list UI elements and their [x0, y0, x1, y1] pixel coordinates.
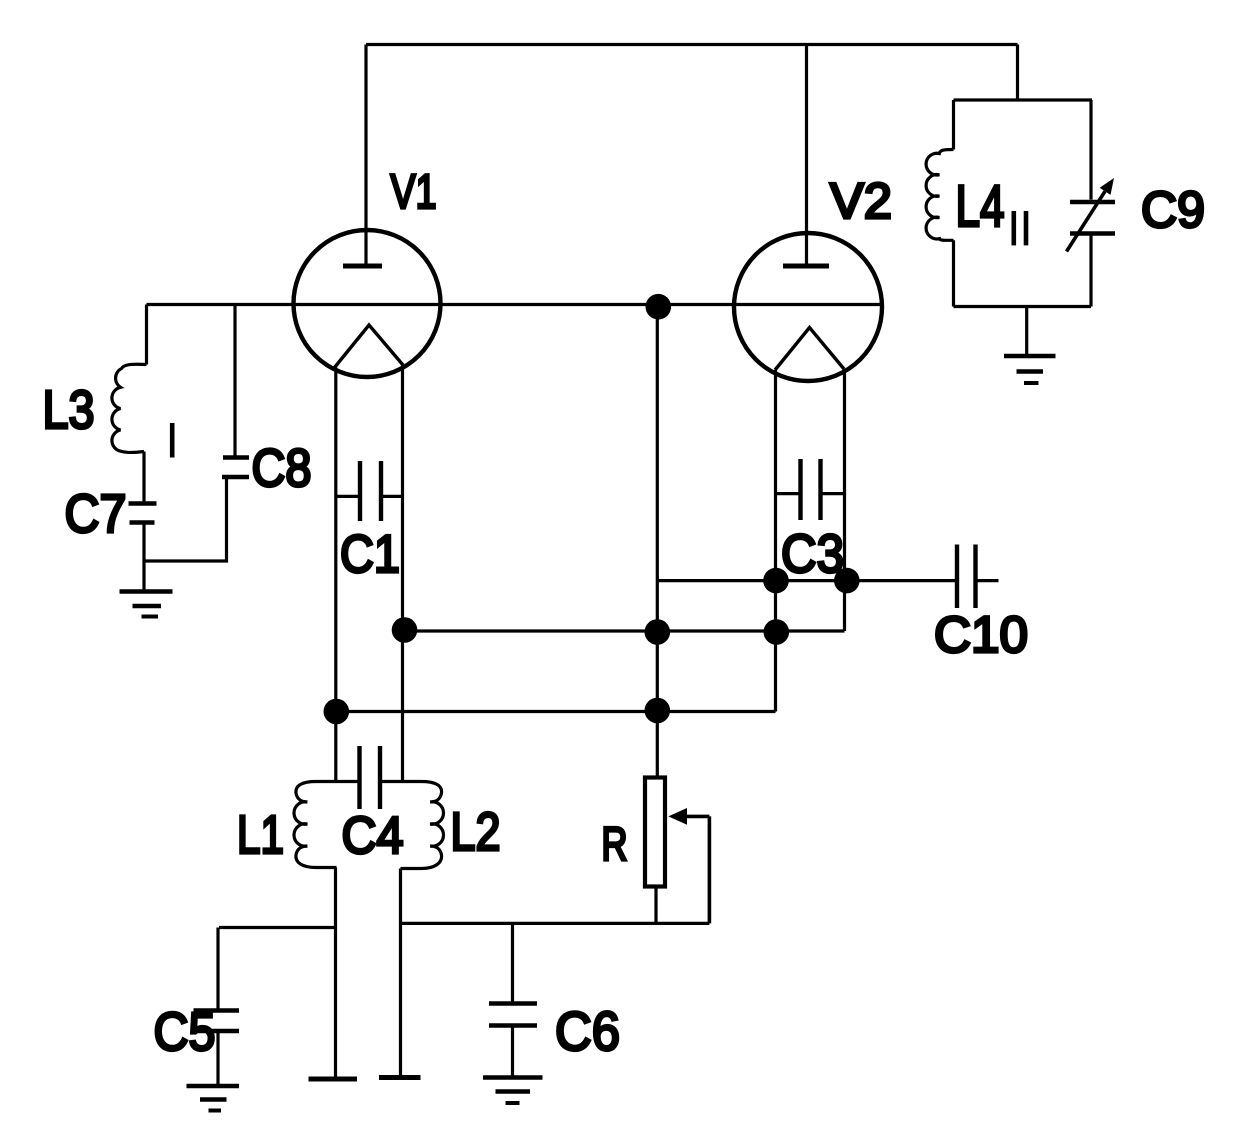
- junction: V1 right cathode leg / row2 bus: [392, 617, 418, 643]
- terminal bar under L2: [379, 1075, 421, 1080]
- wire: V1 left cathode leg: [334, 368, 337, 782]
- wire: top supply rail: [366, 43, 1018, 46]
- wire: C6 bottom lead: [511, 1026, 514, 1078]
- svg-text:C7: C7: [65, 484, 127, 544]
- ground below L4/C9 tank: [1004, 356, 1056, 383]
- wire: V2 plate lead: [805, 45, 808, 267]
- capacitor C8: [222, 458, 249, 478]
- ground below C7: [120, 592, 173, 617]
- wire: R bottom lead: [654, 887, 657, 925]
- wire: L3 to C7: [142, 452, 145, 504]
- L4/C9 tank box: top edge: [954, 98, 1093, 101]
- wire: C5 bottom lead: [216, 1031, 219, 1085]
- capacitor C3: [776, 459, 845, 520]
- winding mark II (secondary): [1014, 211, 1026, 245]
- wire: tank box to ground: [1025, 307, 1028, 355]
- svg-text:C4: C4: [342, 807, 404, 865]
- capacitor C6: [489, 1004, 537, 1026]
- wire: bottom bus right of L2: [401, 922, 710, 925]
- svg-text:C6: C6: [555, 1000, 620, 1062]
- svg-text:L4: L4: [956, 174, 1005, 239]
- junction: center column / row3 bus: [645, 698, 671, 724]
- tank box: left edge lower: [952, 240, 955, 306]
- wire: C7/C8 bottom link: [144, 477, 227, 561]
- capacitor C4: [360, 746, 381, 809]
- wire: grid rail from L3 across V1 to V2: [147, 303, 883, 306]
- tank box: left edge upper: [952, 100, 955, 150]
- capacitor C5: [194, 1011, 240, 1032]
- inductor L1 (left winding with C4, top lead): [294, 782, 359, 868]
- wire: V2 right cathode leg: [843, 369, 846, 631]
- inductor L4: [926, 150, 953, 241]
- winding mark I (primary): [170, 423, 175, 458]
- resistor R (potentiometer): [645, 778, 665, 887]
- wire: bottom bus left (C5 branch): [219, 926, 336, 929]
- wire: V1 plate lead: [364, 45, 367, 267]
- svg-text:L2: L2: [451, 802, 501, 862]
- svg-text:C8: C8: [252, 439, 312, 498]
- wire: row3 bus: [336, 710, 776, 713]
- tube V2: [734, 233, 882, 381]
- ground below C6: [483, 1078, 543, 1104]
- junction: V2 left cathode leg / C10 bus: [763, 568, 789, 594]
- capacitor C10: [957, 545, 999, 609]
- wire: V2 left cathode leg: [774, 370, 777, 712]
- junction: center column / row2 bus: [645, 619, 671, 645]
- svg-text:V1: V1: [391, 166, 437, 219]
- tank box: right edge lower: [1089, 234, 1092, 307]
- svg-text:V2: V2: [830, 173, 892, 229]
- tank box: bottom edge: [954, 305, 1092, 308]
- junction: grid rail / center column: [646, 294, 672, 320]
- wire: C6 top lead: [511, 923, 514, 1003]
- wire: C8 top lead: [233, 305, 236, 457]
- tube V1: [294, 230, 441, 377]
- junction: V2 left cathode leg / row2 bus: [764, 619, 790, 645]
- wire: row2 bus: [404, 629, 845, 632]
- variable capacitor C9: [1067, 178, 1116, 252]
- wire: drop from grid rail to L3: [145, 305, 148, 365]
- svg-text:C1: C1: [340, 525, 400, 584]
- svg-text:R: R: [602, 817, 628, 870]
- wire: C7 bottom to ground: [142, 523, 145, 591]
- svg-text:C10: C10: [934, 606, 1028, 663]
- svg-text:C5: C5: [154, 1002, 216, 1062]
- wire: L4 tank feed: [1016, 45, 1019, 101]
- wire: C5 top lead: [216, 928, 219, 1011]
- capacitor C1: [336, 461, 403, 521]
- terminal bar under L1: [309, 1077, 358, 1082]
- junction: V1 left cathode leg / row3 bus: [324, 699, 350, 725]
- svg-text:C3: C3: [781, 524, 844, 584]
- svg-text:C9: C9: [1141, 181, 1205, 238]
- wire: L1 lower lead: [334, 868, 337, 1079]
- wire: L2 lower lead: [399, 869, 402, 1077]
- capacitor C7: [129, 504, 157, 523]
- inductor L3: [112, 364, 147, 452]
- wire: center column from grid junction to R: [656, 307, 659, 777]
- wire: row1 bus to C10: [657, 579, 957, 582]
- junction: V2 right cathode leg / C10 bus: [834, 568, 860, 594]
- wire: V1 right cathode leg: [401, 365, 404, 782]
- tank box: right edge upper: [1089, 100, 1092, 200]
- svg-text:L3: L3: [43, 380, 95, 440]
- inductor L2 (right winding, top lead): [381, 782, 444, 869]
- ground below C5: [187, 1086, 240, 1111]
- svg-text:L1: L1: [237, 805, 284, 865]
- potentiometer wiper arrow: [668, 808, 709, 923]
